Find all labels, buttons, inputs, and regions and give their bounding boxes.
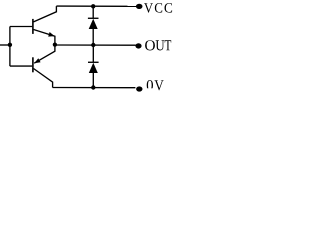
wire 0V rail [53,87,136,89]
transistor Q2 base bar [32,57,34,72]
node junction dot D1 at VCC rail [91,4,95,8]
node junction dot D2 at 0V rail [91,85,95,89]
diode D1 cathode lead [92,6,94,18]
diode D1 cathode bar [88,18,99,19]
transistor Q1 base bar [32,19,34,34]
node junction dot emitters/OUT [53,42,57,46]
white clip over bottom of 0 in 0V label [146,88,155,95]
wire OUT line [55,44,136,46]
diode D2 cathode lead [92,45,94,62]
terminal dot 0V [136,86,142,91]
node junction dot at base tee [8,43,12,47]
label OUT [145,40,171,50]
wire Q1 emitter [34,30,55,45]
wire Q1 collector to VCC rail [34,6,57,22]
wire Q1 base [10,26,32,28]
wire Q2 collector to 0V rail [34,69,53,88]
node junction dot diodes at OUT line [91,43,95,47]
wire VCC rail [56,5,136,7]
wire input stub [0,44,10,46]
transistor Q2 emitter arrowhead [34,58,40,63]
label 0V [147,80,164,90]
diode D2 anode lead [92,73,94,88]
diode D2 cathode bar [88,62,99,63]
wire base tee vertical [9,27,11,67]
transistor Q1 emitter arrowhead [48,32,54,37]
wire Q2 emitter from node [34,45,55,64]
terminal dot OUT [135,43,141,48]
diode D1 triangle [89,19,98,29]
terminal dot VCC [136,4,143,9]
diode D1 anode lead [92,29,94,45]
wire Q2 base [10,65,32,67]
label VCC [144,3,172,13]
diode D2 triangle [89,63,98,73]
